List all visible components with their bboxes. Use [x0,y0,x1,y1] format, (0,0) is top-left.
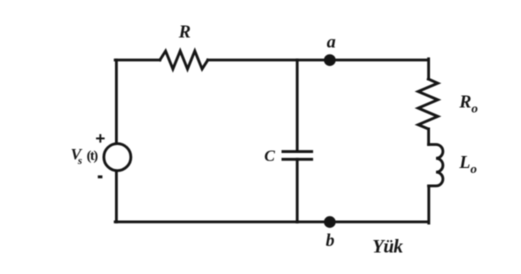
capacitor C (top plate) [283,150,312,153]
wire: right rail, top segment [427,59,430,79]
node a (terminal dot) [324,54,336,66]
wire: left rail, bottom segment (source - terminal down to bottom rail) [115,171,118,222]
wire: capacitor branch, lower segment [296,159,299,222]
svg-text:Ro: Ro [458,92,478,116]
polarity mark + of source VS [97,135,104,142]
voltage source VS [104,144,131,171]
wire: capacitor branch, upper segment [296,60,299,151]
node b (terminal dot) [324,216,336,228]
svg-text:Yük: Yük [372,236,403,257]
svg-text:C: C [264,148,275,165]
capacitor C (bottom plate) [283,158,312,161]
wire: top rail, capacitor junction to node a [297,59,330,62]
wire: left rail, top segment (source + terminal up to top rail) [115,60,118,143]
inductor Lo [429,145,443,186]
wire: bottom rail, left segment to capacitor branch [115,220,297,223]
svg-text:R: R [178,22,191,42]
svg-text:s: s [77,155,82,167]
wire: top rail, node a to right rail [330,59,429,62]
wire: right rail, between Ro and Lo [427,129,430,145]
resistor R [160,51,208,69]
resistor Ro [418,79,438,129]
wire: right rail, bottom segment [427,186,430,223]
svg-text:b: b [326,230,335,250]
svg-text:Lo: Lo [458,152,477,176]
wire: top rail, left segment [115,59,160,62]
svg-text:(t): (t) [87,149,99,164]
svg-text:a: a [327,31,336,51]
wire: top rail, from resistor R to capacitor junction [208,59,297,62]
polarity mark - of source VS [98,175,103,178]
wire: bottom rail, capacitor branch to node b [297,220,330,223]
wire: bottom rail, node b to right rail [330,220,429,223]
